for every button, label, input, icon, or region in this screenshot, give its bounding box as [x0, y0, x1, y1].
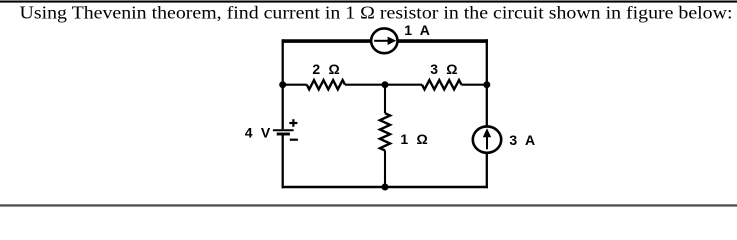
svg-text:3 Ω: 3 Ω: [430, 61, 460, 77]
wire: right vertical lower segment (3A source to bottom-right corner): [486, 153, 488, 188]
svg-text:3 A: 3 A: [509, 132, 537, 148]
wire: between 2-ohm and middle node: [345, 84, 385, 86]
svg-text:1 Ω: 1 Ω: [400, 131, 430, 147]
wire: bottom horizontal: [282, 186, 488, 188]
resistor R1 2 ohm (zigzag): [307, 80, 345, 89]
node: junction dot right (3-ohm row / right branch): [483, 81, 490, 88]
battery polarity minus sign: [290, 139, 298, 141]
node: junction dot left (battery branch / 2-ohm row): [279, 81, 286, 88]
svg-text:2 Ω: 2 Ω: [312, 61, 342, 77]
svg-text:1 A: 1 A: [404, 22, 432, 38]
node: junction dot middle (2-ohm / 3-ohm / 1-ohm): [382, 81, 389, 88]
wire: top-right segment from 1A source to top-right corner: [398, 39, 488, 43]
wire: left vertical upper segment (top-left corner down to battery): [282, 39, 284, 129]
wire: right vertical upper segment (top-right corner to 3A source): [486, 39, 488, 126]
wire: left vertical lower segment (battery down to bottom-left corner): [282, 135, 284, 188]
resistor R2 3 ohm (zigzag): [422, 80, 462, 89]
wire: middle vertical upper stub (middle node down to 1-ohm): [384, 85, 386, 114]
resistor R3 1 ohm (vertical zigzag): [380, 113, 390, 150]
svg-text:Using Thevenin theorem, find c: Using Thevenin theorem, find current in …: [20, 3, 733, 23]
battery V1 4 V (long + plate, short - plate): [273, 130, 294, 134]
battery polarity + sign: [289, 119, 297, 127]
svg-text:4 V: 4 V: [245, 125, 273, 141]
wire: middle row from middle node to 3-ohm resistor: [385, 84, 422, 86]
wire: top-left segment from top-left corner to 1A source: [283, 39, 371, 43]
current source I2 3 A (circle with up arrow): [473, 126, 501, 152]
node: junction dot bottom (1-ohm / bottom wire): [382, 184, 389, 191]
wire: middle row left stub (node A to 2-ohm resistor): [283, 84, 307, 86]
bottom frame line (decorative): [0, 204, 737, 206]
current source I1 1 A (circle with right arrow): [371, 28, 397, 53]
wire: middle vertical lower stub (1-ohm down to bottom node): [384, 151, 386, 188]
top frame line (decorative): [0, 1, 737, 3]
wire: between 3-ohm and right vertical: [462, 84, 487, 86]
